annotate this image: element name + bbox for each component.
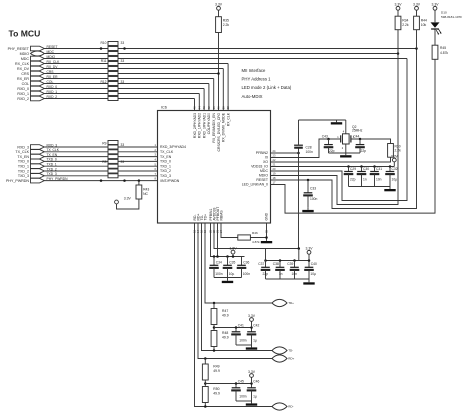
wire RD+ vertical xyxy=(198,223,272,359)
svg-text:RD-: RD- xyxy=(288,405,293,409)
wire 1.8V to rail xyxy=(232,254,234,257)
junction rail C38 xyxy=(279,259,282,262)
wire TX_EN row xyxy=(44,156,157,158)
capacitor C41 xyxy=(231,324,247,346)
wire RD- vertical xyxy=(195,223,273,407)
flag RX_DV xyxy=(31,66,45,71)
svg-text:10µ: 10µ xyxy=(229,272,235,276)
junction XO/C44 xyxy=(359,138,362,141)
wire TD caps bottom rail xyxy=(236,344,252,346)
junction R35/CRS xyxy=(217,72,220,75)
wire RD center node rail xyxy=(205,383,251,385)
svg-text:RXD_1/PHYAD2: RXD_1/PHYAD2 xyxy=(198,113,202,138)
wire XI row to crystal pin1 xyxy=(271,139,341,158)
svg-text:3.3V: 3.3V xyxy=(306,247,314,251)
svg-text:49.9: 49.9 xyxy=(213,392,220,396)
svg-text:RX_DV/MII_MODE: RX_DV/MII_MODE xyxy=(222,112,226,142)
wire TX_CLK row xyxy=(44,151,157,153)
svg-text:PHY Address 1: PHY Address 1 xyxy=(242,77,272,82)
svg-text:MII Interface: MII Interface xyxy=(242,68,266,73)
svg-text:TXD_1: TXD_1 xyxy=(18,165,29,169)
wire AVDD33 down from rail joint xyxy=(265,249,267,261)
wire RXD_2 row to IC pin xyxy=(44,98,194,100)
svg-text:TXD_0: TXD_0 xyxy=(18,160,29,164)
wire RD caps bottom rail xyxy=(236,400,252,402)
junction TD node xyxy=(213,326,216,329)
junction R48/TD- xyxy=(213,349,216,352)
svg-text:RX_DV: RX_DV xyxy=(17,67,30,71)
svg-text:C46: C46 xyxy=(253,380,259,384)
flag TX_EN xyxy=(31,154,45,159)
wire PWRDN to R43 xyxy=(138,181,140,185)
3.3V supply RD xyxy=(248,370,256,378)
junction PFBIN2/C28 xyxy=(297,152,300,155)
junction XI/C43 xyxy=(327,138,330,141)
junction rail C37 xyxy=(264,259,267,262)
wire TD center node rail xyxy=(214,327,252,329)
ground GND pin xyxy=(261,241,272,244)
wire R50 to RD- xyxy=(204,403,206,407)
svg-text:C36: C36 xyxy=(243,261,249,265)
ground RD caps xyxy=(246,401,257,406)
resistor R34 xyxy=(395,16,409,30)
svg-text:C33: C33 xyxy=(310,187,316,191)
svg-text:RX_ER: RX_ER xyxy=(17,77,29,81)
junction PWRDN b xyxy=(123,179,126,182)
wire COL row to IC pin xyxy=(44,83,209,85)
svg-text:49.9: 49.9 xyxy=(222,336,229,340)
capacitor C29 xyxy=(344,167,357,187)
wire R35 to CRS row and IC pin xyxy=(218,33,220,74)
resistor array R10/R11/R12 (33 ohm series) xyxy=(100,41,124,100)
wire down to crystal pin 4 xyxy=(345,120,347,134)
svg-text:TX_CLK: TX_CLK xyxy=(15,150,29,154)
wire TD+ vertical xyxy=(205,223,272,303)
flag RD- xyxy=(272,403,287,410)
svg-text:TD+: TD+ xyxy=(203,214,207,221)
svg-text:R9: R9 xyxy=(102,142,106,146)
svg-text:C34: C34 xyxy=(216,261,222,265)
junction node C45 xyxy=(235,382,238,385)
svg-text:33: 33 xyxy=(121,41,125,45)
svg-text:3.3V: 3.3V xyxy=(432,3,440,7)
svg-text:XO: XO xyxy=(263,160,268,164)
svg-text:NC: NC xyxy=(143,192,148,196)
svg-text:C28: C28 xyxy=(306,145,312,149)
wire R47 top xyxy=(213,303,215,309)
capacitor C28 100n xyxy=(294,120,313,154)
wire PFBIN1 to 1.8V rail xyxy=(211,223,245,257)
svg-text:CRS/CRS_DV/LED_CFG: CRS/CRS_DV/LED_CFG xyxy=(217,113,221,152)
flag MDC xyxy=(31,56,45,61)
3.3V supply crystal bank xyxy=(393,162,395,167)
wire R49 to node xyxy=(204,380,206,387)
svg-text:22p: 22p xyxy=(262,272,268,276)
svg-text:Auto-MDIX: Auto-MDIX xyxy=(242,94,263,99)
junction RESET/C33 xyxy=(307,179,310,182)
wire 3.3V RD stub xyxy=(251,377,253,383)
junction R50/RD- xyxy=(204,405,207,408)
resistor R45 4.87k xyxy=(432,45,448,59)
svg-text:1µ: 1µ xyxy=(253,395,257,399)
svg-text:10k: 10k xyxy=(421,23,427,27)
svg-text:C41: C41 xyxy=(238,324,244,328)
svg-text:C45: C45 xyxy=(238,380,244,384)
svg-text:22p: 22p xyxy=(350,177,356,181)
junction rail C34 xyxy=(213,255,216,258)
flag RX_ER xyxy=(31,76,45,81)
wire 3.3V to R34 xyxy=(397,10,399,16)
flag PHY_RESET xyxy=(31,46,45,51)
svg-text:100n: 100n xyxy=(215,272,223,276)
junction 3.3V supply C40 xyxy=(308,259,311,262)
capacitor C32 xyxy=(385,167,398,187)
3.3V supply R34 xyxy=(395,3,403,11)
svg-text:3.3V: 3.3V xyxy=(248,370,256,374)
wire R47 to node xyxy=(213,325,215,331)
wire RX_CLK row to IC pin xyxy=(44,63,228,65)
wire PHY_PWRDN row xyxy=(44,180,157,182)
ground C33 xyxy=(302,207,313,212)
wire XO row to R30 xyxy=(271,157,391,162)
wire RXD_3 row xyxy=(44,146,157,148)
resistor R44 xyxy=(414,16,427,30)
svg-text:R8: R8 xyxy=(102,160,106,164)
svg-text:C40: C40 xyxy=(311,262,317,266)
svg-text:XI: XI xyxy=(265,156,268,160)
svg-text:TD-: TD- xyxy=(288,349,293,353)
LED D10 xyxy=(431,10,463,35)
junction VDD33 C30 xyxy=(360,165,363,168)
svg-text:TXD_3: TXD_3 xyxy=(18,174,29,178)
wire TXD_0 row xyxy=(44,160,157,162)
svg-text:100n: 100n xyxy=(239,339,247,343)
svg-text:C42: C42 xyxy=(253,324,259,328)
svg-text:C31: C31 xyxy=(376,167,382,171)
svg-text:MDIO: MDIO xyxy=(259,174,268,178)
wire TXD_1 row xyxy=(44,165,157,167)
capacitor C30 xyxy=(357,167,370,187)
svg-text:22p: 22p xyxy=(361,149,367,153)
wire CRS row to IC pin xyxy=(44,73,218,75)
svg-text:R46: R46 xyxy=(252,231,258,235)
svg-text:IC6: IC6 xyxy=(161,106,167,110)
svg-text:TX_EN: TX_EN xyxy=(17,155,29,159)
flag TX_CLK xyxy=(31,150,45,155)
resistor array R8/R9 (33 ohm series) xyxy=(102,141,124,178)
wire 3.3V to R35 xyxy=(218,10,220,17)
flag RXD_1 xyxy=(31,91,45,96)
svg-text:RESET: RESET xyxy=(256,178,269,182)
wire PFBIN2 feed drop xyxy=(298,153,300,249)
junction row1 right xyxy=(123,47,126,50)
wire R44 to RESET row xyxy=(416,30,418,49)
svg-text:25MHz: 25MHz xyxy=(352,129,363,133)
wire RXD_1 row to IC pin xyxy=(44,93,199,95)
resistor R50 xyxy=(202,387,220,403)
svg-text:R48: R48 xyxy=(222,331,228,335)
svg-text:PFBIN2: PFBIN2 xyxy=(256,151,268,155)
svg-text:RX_CLK: RX_CLK xyxy=(15,62,30,66)
svg-text:RXD_2/PHYAD3: RXD_2/PHYAD3 xyxy=(193,113,197,138)
flag TD- xyxy=(272,347,287,354)
svg-text:RX_CLK: RX_CLK xyxy=(226,112,230,126)
svg-text:R44: R44 xyxy=(421,18,427,22)
junction RD+/R49 xyxy=(204,357,207,360)
wire MDC loop xyxy=(271,59,408,201)
svg-text:C29: C29 xyxy=(350,167,356,171)
svg-text:33: 33 xyxy=(121,143,125,147)
capacitor C44 xyxy=(353,135,366,153)
3.3V supply TD xyxy=(248,314,256,322)
junction PFBIN2/AVDD33 xyxy=(298,247,301,250)
svg-text:2.2k: 2.2k xyxy=(223,23,230,27)
capacitor C43 xyxy=(322,135,335,153)
op-amp/IC U1 IC6 DP83848 body xyxy=(158,111,271,224)
junction node C46 xyxy=(250,382,253,385)
svg-text:GND: GND xyxy=(265,212,269,220)
svg-text:C44: C44 xyxy=(353,135,359,139)
junction node C41 xyxy=(235,326,238,329)
wire MDC row xyxy=(44,58,407,60)
capacitor C36 xyxy=(237,257,251,278)
svg-text:TXD_2: TXD_2 xyxy=(18,169,29,173)
svg-text:10n: 10n xyxy=(376,177,382,181)
svg-text:RD+: RD+ xyxy=(288,357,294,361)
svg-text:100n: 100n xyxy=(243,272,251,276)
svg-text:100n: 100n xyxy=(306,150,314,154)
svg-text:4.87k: 4.87k xyxy=(252,240,260,244)
wire R46 to GND pin xyxy=(250,237,266,239)
svg-text:C38: C38 xyxy=(273,262,279,266)
junction PFBOUT rail xyxy=(216,255,219,258)
svg-text:C35: C35 xyxy=(229,261,235,265)
resistor R30 2.2k xyxy=(388,144,401,158)
capacitor C46 xyxy=(247,380,260,402)
MII interface note text xyxy=(242,68,292,99)
svg-text:100n: 100n xyxy=(310,197,318,201)
svg-text:RBIAS: RBIAS xyxy=(219,210,223,221)
wire TD- vertical xyxy=(202,223,273,351)
svg-text:R12: R12 xyxy=(100,80,106,84)
resistor R48 xyxy=(211,331,229,347)
3.3V supply bottom bank xyxy=(306,247,314,255)
svg-text:PHY_RESET: PHY_RESET xyxy=(8,47,30,51)
wire crystal ground rail xyxy=(329,152,361,154)
3.3V supply R44 xyxy=(413,3,421,11)
svg-text:33: 33 xyxy=(121,59,125,63)
svg-text:R45: R45 xyxy=(440,46,446,50)
svg-text:R35: R35 xyxy=(223,19,229,23)
wire R30 top to crystal pin3 xyxy=(351,139,391,144)
svg-text:TXD_1: TXD_1 xyxy=(160,164,171,168)
junction RD node xyxy=(204,382,207,385)
flag TXD_3 xyxy=(31,174,45,179)
svg-text:2.2k: 2.2k xyxy=(402,23,409,27)
wire AVDD33 to 3.3V rail xyxy=(214,223,299,249)
3.3V supply LED xyxy=(432,3,440,11)
svg-text:RXD_0/PHYAD1: RXD_0/PHYAD1 xyxy=(202,113,206,138)
svg-text:1n: 1n xyxy=(363,177,367,181)
junction VDD33 C31 xyxy=(373,165,376,168)
flag PHY_PWRDN xyxy=(31,178,45,183)
junction GND/R46 xyxy=(265,236,268,239)
ground crystal bottom xyxy=(340,153,351,158)
svg-text:CRS: CRS xyxy=(21,72,29,76)
capacitor C38 xyxy=(273,261,285,280)
svg-text:R10: R10 xyxy=(100,41,106,45)
junction node C42 xyxy=(250,326,253,329)
wire VDD33 bank bottom rail xyxy=(349,186,391,188)
svg-text:C39: C39 xyxy=(287,262,293,266)
svg-text:MDIO: MDIO xyxy=(20,52,30,56)
resistor R47 xyxy=(211,309,229,325)
flag TD+ xyxy=(272,299,287,306)
wire crystal pin2 to ground rail xyxy=(345,144,347,153)
junction PWRDN a xyxy=(100,179,103,182)
svg-text:TX_CLK: TX_CLK xyxy=(160,150,174,154)
svg-text:C32: C32 xyxy=(392,167,398,171)
capacitor C42 xyxy=(247,324,260,346)
svg-text:MDC: MDC xyxy=(21,57,30,61)
svg-text:RX_ER/AMDIX_EN: RX_ER/AMDIX_EN xyxy=(212,112,216,142)
3.3V supply R43 xyxy=(115,196,132,204)
svg-text:100n: 100n xyxy=(239,395,247,399)
wire R49 top xyxy=(204,359,206,365)
wire PFBIN2 row xyxy=(271,152,299,154)
svg-text:/INT//PWDN: /INT//PWDN xyxy=(160,179,180,183)
svg-text:RXD_0: RXD_0 xyxy=(17,87,29,91)
junction PWRDN R43 xyxy=(138,179,141,182)
wire GND pin down xyxy=(266,223,268,241)
wire 1.8V bank bottom rail xyxy=(214,277,242,279)
svg-text:COL: COL xyxy=(22,82,29,86)
wire 3.3V supply stub xyxy=(308,254,310,261)
wire RXD_0 row to IC pin xyxy=(44,88,204,90)
ground VDD33 bank xyxy=(384,187,395,192)
svg-text:R50: R50 xyxy=(213,387,219,391)
svg-text:C30: C30 xyxy=(363,167,369,171)
svg-text:RXD_1: RXD_1 xyxy=(17,92,29,96)
wire RESET loop xyxy=(271,49,417,209)
svg-text:LED mode 2 (Link + Data): LED mode 2 (Link + Data) xyxy=(242,85,292,90)
svg-text:RXD_3: RXD_3 xyxy=(17,145,29,149)
junction VDD33 C29 xyxy=(347,165,350,168)
svg-text:49.9: 49.9 xyxy=(222,314,229,318)
svg-text:MDC: MDC xyxy=(260,169,268,173)
junction TD+/R47 xyxy=(213,302,216,305)
3.3V supply top-middle xyxy=(215,3,223,11)
svg-text:R47: R47 xyxy=(222,309,228,313)
svg-text:To MCU: To MCU xyxy=(9,29,41,39)
junction rail C35 xyxy=(226,255,229,258)
svg-text:R11: R11 xyxy=(101,59,107,63)
wire RESET row xyxy=(44,48,416,50)
svg-text:22p: 22p xyxy=(329,149,335,153)
wire RX_ER row to IC pin xyxy=(44,78,213,80)
wire R45 to LED cathode xyxy=(434,29,436,45)
svg-text:TXD_0: TXD_0 xyxy=(160,160,171,164)
capacitor C40 xyxy=(304,261,317,280)
wire MDIO row xyxy=(44,53,398,55)
wire 3.3V TD stub xyxy=(251,321,253,327)
junction RESET pull-up xyxy=(415,47,418,50)
svg-text:RXD_2: RXD_2 xyxy=(17,97,29,101)
svg-text:TD+: TD+ xyxy=(288,301,294,305)
flag CRS xyxy=(31,71,45,76)
flag RXD_3 xyxy=(31,145,45,150)
svg-text:3.3V: 3.3V xyxy=(395,3,403,7)
svg-text:33: 33 xyxy=(121,160,125,164)
wire down to 3.3V cap rail xyxy=(298,249,300,261)
svg-text:10µ: 10µ xyxy=(392,177,398,181)
flag RX_CLK xyxy=(31,61,45,66)
capacitor C31 xyxy=(370,167,383,187)
svg-text:R34: R34 xyxy=(402,18,408,22)
flag TXD_1 xyxy=(31,164,45,169)
svg-text:VDD33_IO: VDD33_IO xyxy=(251,165,268,169)
resistor R46 4.87k xyxy=(238,231,260,244)
svg-text:RXD_3/PHYAD4: RXD_3/PHYAD4 xyxy=(160,145,186,149)
svg-text:3.3V: 3.3V xyxy=(391,154,399,158)
svg-text:1.8V: 1.8V xyxy=(230,247,238,251)
svg-text:4.87k: 4.87k xyxy=(440,51,448,55)
svg-text:3.3V: 3.3V xyxy=(215,3,223,7)
svg-text:R43: R43 xyxy=(143,188,149,192)
svg-text:3.3V: 3.3V xyxy=(413,3,421,7)
capacitor C34 xyxy=(209,257,223,278)
svg-text:3.3V: 3.3V xyxy=(124,196,132,200)
wire R43 to 3.3V xyxy=(117,199,139,209)
wire C28 top to crystal ground rail xyxy=(299,119,346,121)
capacitor C37 xyxy=(258,261,270,280)
svg-text:TXD_2: TXD_2 xyxy=(160,169,171,173)
svg-text:PHY_PWRDN: PHY_PWRDN xyxy=(6,179,29,183)
3.3V supply VDD33 bank xyxy=(391,154,399,162)
junction 1.8V rail xyxy=(232,255,235,258)
svg-text:COL/PHYAD0: COL/PHYAD0 xyxy=(207,113,211,134)
svg-text:1µ: 1µ xyxy=(253,339,257,343)
crystal Q2 25MHz xyxy=(337,125,362,150)
wire MDIO loop xyxy=(271,54,399,205)
flag RXD_0 xyxy=(31,86,45,91)
capacitor C45 xyxy=(231,380,247,402)
junction rail C39 xyxy=(293,259,296,262)
flag RXD_2 xyxy=(31,96,45,101)
wire RX_DV row to IC pin xyxy=(44,68,223,70)
wire RBIAS to R46 xyxy=(221,223,238,238)
flag COL xyxy=(31,81,45,86)
wire R34 to MDIO row xyxy=(397,30,399,54)
junction row1 left xyxy=(100,47,103,50)
capacitor C33 100n xyxy=(303,180,317,207)
1.8V supply xyxy=(230,247,238,255)
resistor R49 xyxy=(202,364,220,380)
ground 3.3V bank xyxy=(303,279,314,285)
wire TXD_3 row xyxy=(44,175,157,177)
svg-text:3.3V: 3.3V xyxy=(248,314,256,318)
wire TXD_2 row xyxy=(44,170,157,172)
svg-text:33: 33 xyxy=(121,80,125,84)
svg-text:R49: R49 xyxy=(213,365,219,369)
wire R48 to TD- xyxy=(213,347,215,351)
svg-text:598-8181-107F: 598-8181-107F xyxy=(441,15,462,19)
svg-text:C37: C37 xyxy=(258,262,264,266)
svg-text:49.9: 49.9 xyxy=(213,369,220,373)
svg-text:TX_EN: TX_EN xyxy=(160,155,172,159)
capacitor C39 xyxy=(287,261,299,280)
junction MDIO pull-up xyxy=(397,52,400,55)
